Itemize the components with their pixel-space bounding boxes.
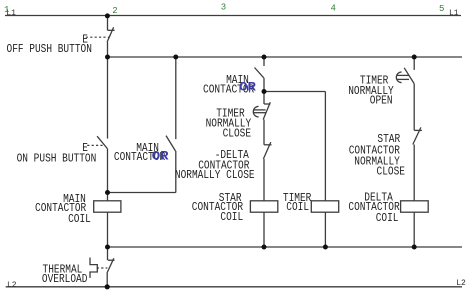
svg-text:OR: OR [152, 149, 169, 163]
svg-text:L2: L2 [7, 281, 17, 290]
svg-text:OVERLOAD: OVERLOAD [42, 273, 88, 286]
svg-text:3: 3 [221, 3, 226, 13]
svg-text:COIL: COIL [220, 211, 243, 224]
svg-text:OPEN: OPEN [370, 95, 393, 108]
svg-text:1: 1 [4, 5, 9, 15]
svg-text:2: 2 [112, 6, 117, 16]
svg-text:NORMALLY CLOSE: NORMALLY CLOSE [175, 169, 255, 182]
svg-text:L1: L1 [449, 9, 459, 18]
svg-text:4: 4 [331, 3, 336, 13]
svg-text:COIL: COIL [68, 213, 91, 226]
svg-text:E: E [82, 33, 88, 46]
svg-text:CLOSE: CLOSE [223, 128, 252, 141]
svg-text:COIL: COIL [376, 212, 399, 225]
svg-text:E: E [82, 142, 88, 155]
svg-text:CLOSE: CLOSE [377, 166, 406, 179]
svg-text:L2: L2 [456, 279, 466, 288]
svg-text:OFF PUSH BUTTON: OFF PUSH BUTTON [7, 43, 92, 56]
svg-text:OR: OR [239, 80, 256, 94]
svg-text:COIL: COIL [286, 201, 309, 214]
svg-text:5: 5 [439, 4, 444, 14]
